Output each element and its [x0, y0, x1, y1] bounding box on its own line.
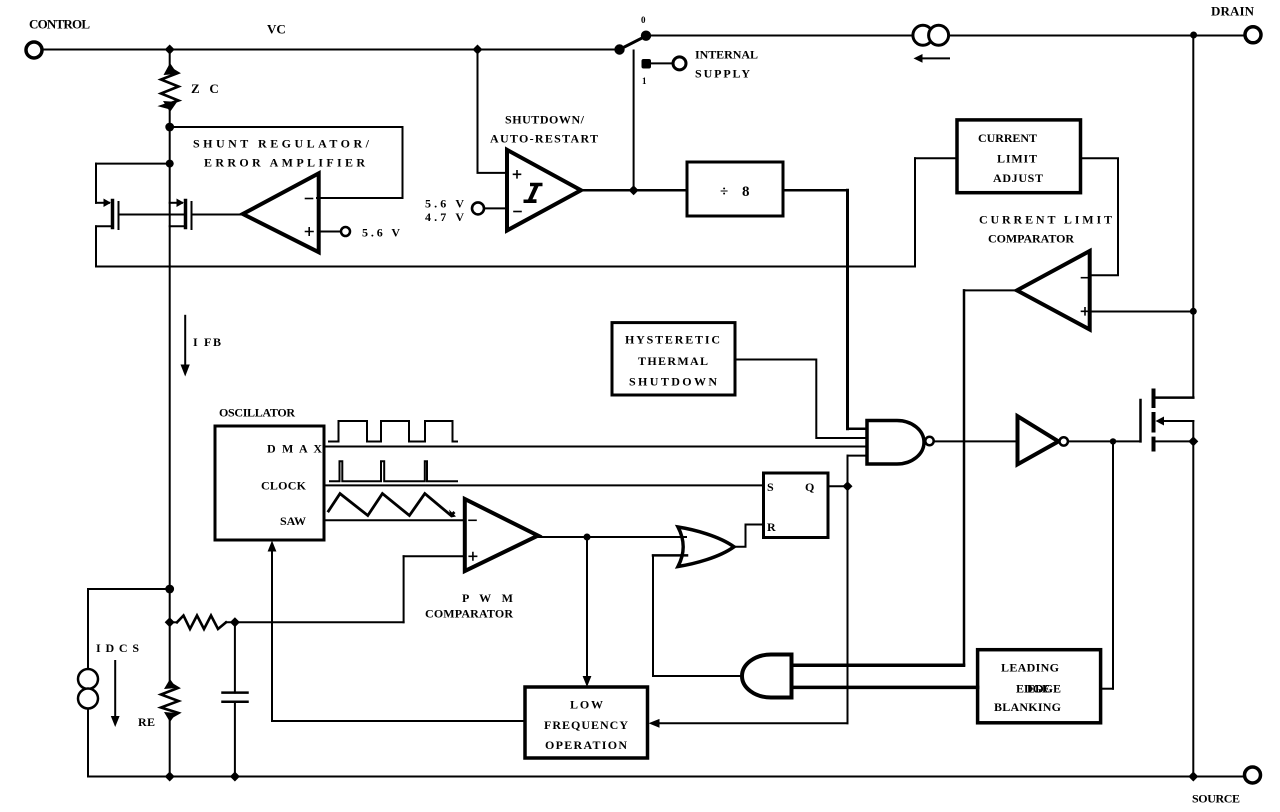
svg-text:DRAIN: DRAIN [1211, 4, 1255, 19]
svg-text:OSCILLATOR: OSCILLATOR [219, 406, 295, 420]
svg-text:I D C S: I D C S [96, 641, 139, 655]
svg-text:CURRENT: CURRENT [978, 131, 1037, 145]
svg-text:SHUTDOWN/: SHUTDOWN/ [505, 113, 585, 127]
svg-text:BLANKING: BLANKING [994, 700, 1061, 714]
svg-text:AUTO-RESTART: AUTO-RESTART [490, 132, 598, 146]
svg-text:FREQUENCY: FREQUENCY [544, 718, 628, 732]
svg-text:INTERNAL: INTERNAL [695, 48, 758, 62]
svg-text:D M A X: D M A X [267, 442, 322, 456]
svg-text:OPERATION: OPERATION [545, 738, 627, 752]
svg-text:SHUNT REGULATOR/: SHUNT REGULATOR/ [193, 137, 370, 151]
svg-text:÷: ÷ [720, 184, 728, 200]
svg-text:RE: RE [138, 715, 155, 729]
svg-text:ERROR AMPLIFIER: ERROR AMPLIFIER [204, 156, 365, 170]
svg-text:5.6 V: 5.6 V [425, 197, 464, 211]
svg-text:1: 1 [642, 76, 647, 86]
svg-text:COMPARATOR: COMPARATOR [988, 232, 1074, 246]
svg-text:ADJUST: ADJUST [993, 171, 1043, 185]
svg-text:CONTROL: CONTROL [29, 17, 90, 32]
svg-text:SOURCE: SOURCE [1192, 792, 1240, 806]
svg-text:5.6 V: 5.6 V [362, 226, 400, 240]
svg-text:CLOCK: CLOCK [261, 479, 307, 493]
svg-text:LIMIT: LIMIT [997, 152, 1037, 166]
svg-text:0: 0 [641, 15, 646, 25]
svg-text:Q: Q [805, 480, 814, 494]
svg-text:VC: VC [267, 22, 286, 37]
svg-text:COMPARATOR: COMPARATOR [425, 607, 513, 621]
svg-text:S: S [767, 480, 774, 494]
svg-text:8: 8 [742, 184, 750, 200]
svg-text:EDGE: EDGE [1027, 682, 1061, 696]
svg-text:LOW: LOW [570, 698, 603, 712]
svg-text:SAW: SAW [280, 514, 306, 528]
svg-text:SUPPLY: SUPPLY [695, 67, 750, 81]
svg-text:HYSTERETIC: HYSTERETIC [625, 333, 720, 347]
svg-text:LEADING: LEADING [1001, 661, 1059, 675]
svg-text:THERMAL: THERMAL [638, 354, 708, 368]
svg-text:Z C: Z C [191, 81, 219, 96]
svg-text:SHUTDOWN: SHUTDOWN [629, 375, 717, 389]
svg-text:I FB: I FB [193, 335, 221, 349]
svg-text:4.7 V: 4.7 V [425, 210, 464, 224]
svg-text:R: R [767, 520, 776, 534]
